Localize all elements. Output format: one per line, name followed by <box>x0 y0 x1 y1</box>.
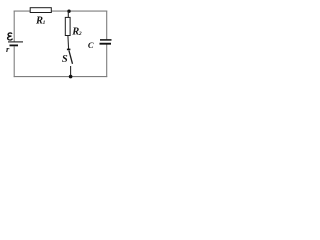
node junction bottom <box>69 75 73 79</box>
battery short thick plate <box>10 44 19 46</box>
wire bottom <box>14 76 108 78</box>
node junction top <box>67 10 70 13</box>
svg-text:1: 1 <box>43 20 46 26</box>
capacitor C bottom plate <box>100 43 112 45</box>
resistor R2 <box>65 17 70 35</box>
switch S blade <box>69 50 73 63</box>
svg-text:C: C <box>88 40 94 50</box>
svg-text:r: r <box>6 44 10 54</box>
svg-text:S: S <box>62 54 68 65</box>
wire R2 top stub <box>67 11 69 17</box>
capacitor C top plate <box>100 39 112 41</box>
switch S lower stub wire <box>70 66 72 77</box>
label EMF script E <box>8 33 13 40</box>
resistor R1 <box>30 8 51 13</box>
wire top left segment <box>14 10 31 12</box>
wire right upper <box>106 11 108 40</box>
battery long plate <box>8 41 23 43</box>
svg-text:2: 2 <box>78 31 82 37</box>
wire left lower <box>13 46 15 77</box>
wire top right segment <box>51 10 107 12</box>
switch S upper contact <box>67 48 71 50</box>
wire R2 bottom stub <box>67 36 70 50</box>
wire left upper <box>13 11 15 42</box>
wire right lower <box>106 44 108 77</box>
